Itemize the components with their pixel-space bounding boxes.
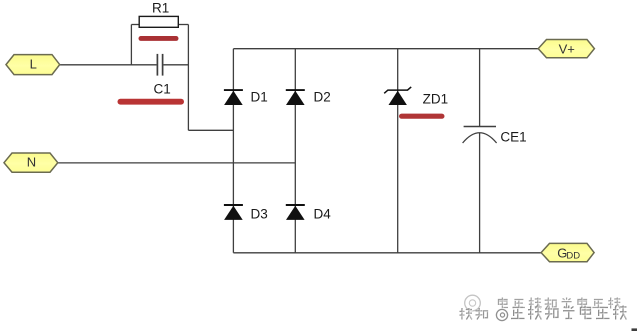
svg-text:C1: C1 bbox=[154, 81, 171, 96]
svg-text:DD: DD bbox=[566, 251, 580, 262]
svg-text:D2: D2 bbox=[314, 90, 331, 105]
svg-text:D4: D4 bbox=[314, 206, 332, 221]
svg-text:R1: R1 bbox=[152, 0, 169, 15]
svg-text:N: N bbox=[27, 155, 36, 170]
svg-text:D1: D1 bbox=[251, 90, 268, 105]
svg-text:D3: D3 bbox=[251, 206, 268, 221]
svg-text:CE1: CE1 bbox=[500, 129, 526, 144]
svg-text:L: L bbox=[30, 57, 37, 72]
svg-text:ZD1: ZD1 bbox=[423, 91, 449, 106]
svg-text:V+: V+ bbox=[559, 41, 575, 56]
